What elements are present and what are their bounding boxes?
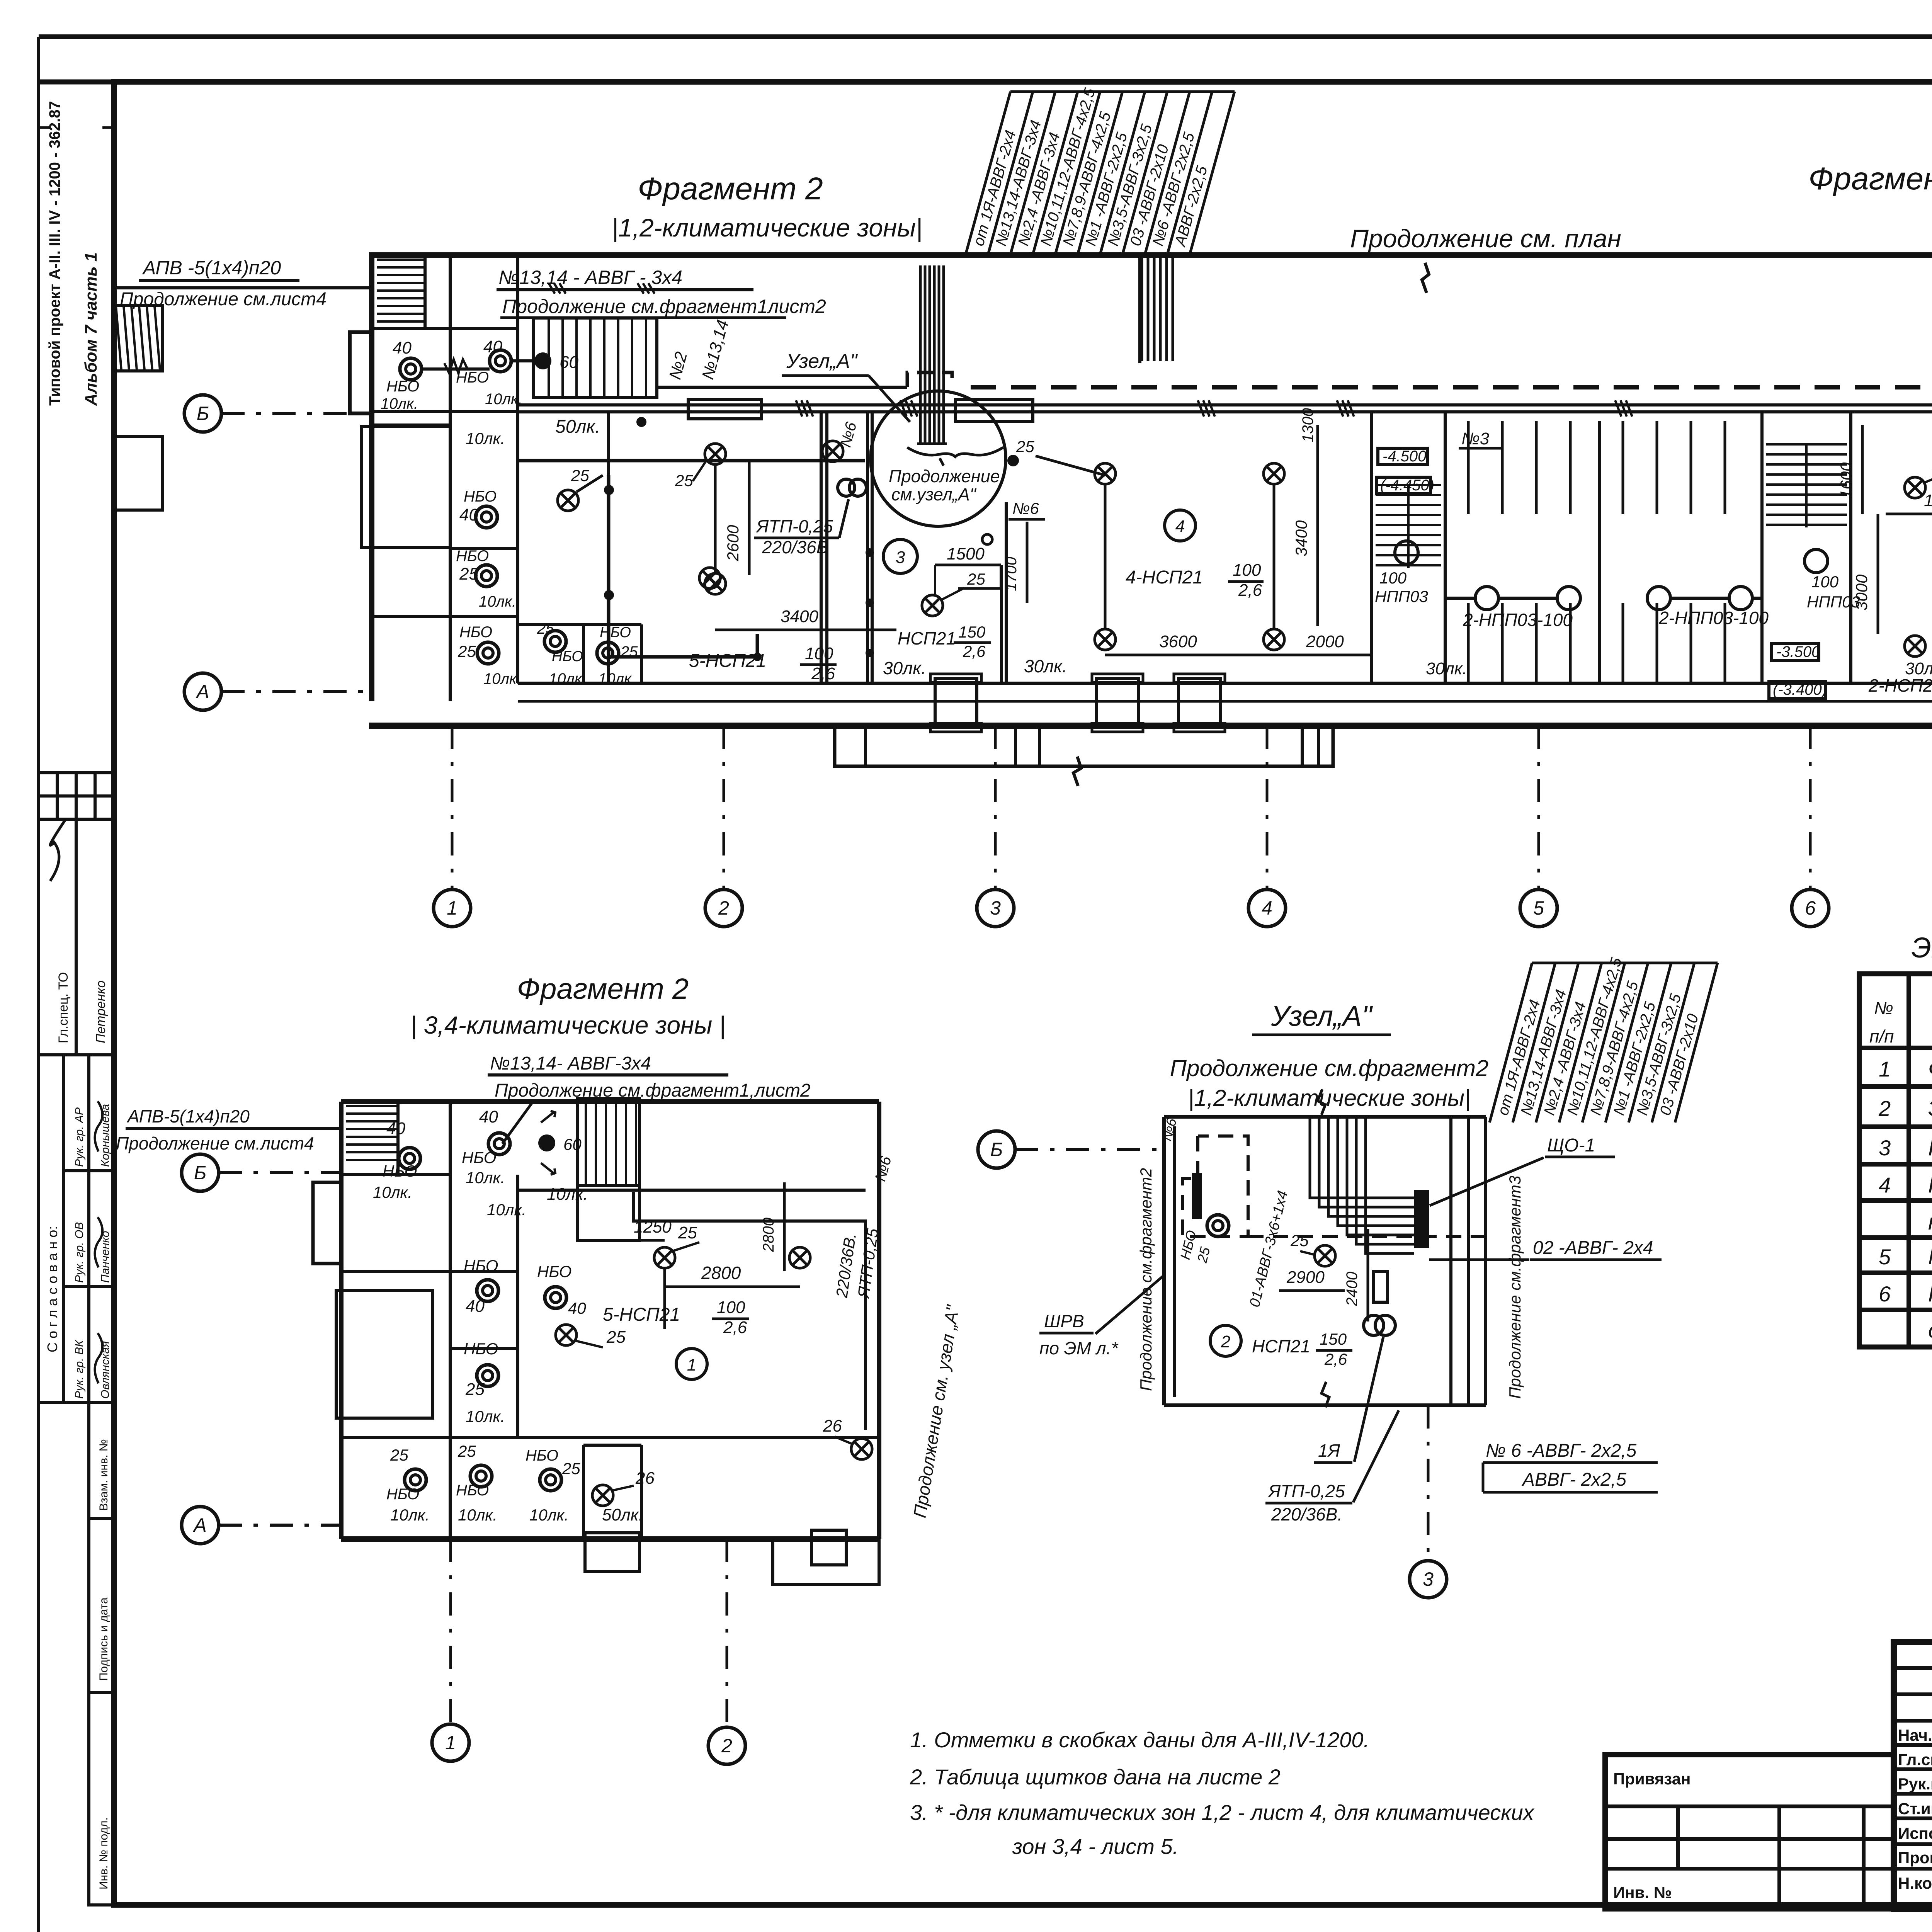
svg-text:ШРВ: ШРВ bbox=[1044, 1311, 1084, 1331]
svg-text:№: № bbox=[1874, 998, 1893, 1018]
svg-text:25: 25 bbox=[678, 1223, 697, 1242]
svg-text:10лк.: 10лк. bbox=[483, 670, 521, 687]
svg-text:Электрощитовая: Электрощитовая bbox=[1928, 1096, 1932, 1121]
svg-text:Панченко: Панченко bbox=[99, 1231, 112, 1283]
svg-text:10лк.: 10лк. bbox=[466, 429, 505, 447]
svg-text:2400: 2400 bbox=[1344, 1272, 1361, 1306]
svg-text:Инв. № подл.: Инв. № подл. bbox=[97, 1817, 110, 1889]
svg-text:Продолжение см.фрагмент2: Продолжение см.фрагмент2 bbox=[1137, 1168, 1155, 1391]
svg-text:№3: №3 bbox=[1461, 429, 1490, 448]
svg-text:40: 40 bbox=[479, 1107, 498, 1126]
svg-text:2. Таблица щитков дана на: 2. Таблица щитков дана на листе 2 bbox=[910, 1765, 1281, 1789]
svg-text:(-4.450): (-4.450) bbox=[1380, 477, 1434, 494]
svg-text:Провер.: Провер. bbox=[1898, 1849, 1932, 1867]
svg-text:2800: 2800 bbox=[760, 1218, 777, 1252]
svg-text:| 3,4-климатические зоны |: | 3,4-климатические зоны | bbox=[410, 1011, 726, 1039]
svg-text:|1,2-климатические зоны|: |1,2-климатические зоны| bbox=[1188, 1085, 1470, 1111]
svg-text:60: 60 bbox=[563, 1135, 582, 1153]
svg-text:1: 1 bbox=[1879, 1057, 1891, 1081]
svg-text:10лк.: 10лк. bbox=[549, 670, 586, 687]
svg-text:10лк.: 10лк. bbox=[547, 1185, 588, 1204]
svg-text:Помещение фильтров: Помещение фильтров bbox=[1928, 1135, 1932, 1160]
svg-text:(-3.400): (-3.400) bbox=[1773, 681, 1827, 698]
svg-text:НБО: НБО bbox=[456, 548, 489, 565]
svg-text:зон 3,4 - лист 5.: зон 3,4 - лист 5. bbox=[1012, 1834, 1179, 1859]
svg-text:25: 25 bbox=[571, 466, 589, 485]
svg-text:№6: №6 bbox=[837, 420, 860, 449]
svg-text:Типовой проект А-II. III. IV: Типовой проект А-II. III. IV - 1200 - 36… bbox=[46, 101, 63, 406]
svg-text:НСП21: НСП21 bbox=[898, 628, 956, 648]
svg-text:АВВГ- 2х2,5: АВВГ- 2х2,5 bbox=[1521, 1469, 1626, 1490]
svg-text:100: 100 bbox=[1379, 569, 1407, 587]
svg-text:100: 100 bbox=[805, 644, 833, 663]
svg-text:5: 5 bbox=[1879, 1245, 1891, 1269]
svg-text:26: 26 bbox=[635, 1469, 655, 1488]
svg-text:25: 25 bbox=[465, 1380, 485, 1399]
svg-text:Гл.спец. ТО: Гл.спец. ТО bbox=[56, 972, 71, 1043]
svg-text:100: 100 bbox=[1811, 573, 1839, 591]
svg-text:Продолжение см.фрагмент2: Продолжение см.фрагмент2 bbox=[1170, 1055, 1489, 1081]
svg-text:Альбом 7 часть 1: Альбом 7 часть 1 bbox=[82, 252, 100, 406]
svg-text:Б: Б bbox=[990, 1139, 1003, 1160]
svg-text:Взам. инв. №: Взам. инв. № bbox=[97, 1439, 110, 1511]
svg-text:дения: дения bbox=[1928, 1318, 1932, 1343]
svg-text:А: А bbox=[192, 1514, 206, 1536]
svg-text:ЩО-1: ЩО-1 bbox=[1547, 1135, 1595, 1156]
svg-text:50лк.: 50лк. bbox=[555, 417, 600, 437]
svg-text:1. Отметки в скобках даны: 1. Отметки в скобках даны для А-III,IV-1… bbox=[910, 1728, 1369, 1752]
svg-text:НБО: НБО bbox=[526, 1447, 558, 1464]
svg-text:ЯТП-0,25: ЯТП-0,25 bbox=[1267, 1481, 1345, 1501]
svg-text:3400: 3400 bbox=[1292, 520, 1310, 556]
svg-text:10лк.: 10лк. bbox=[381, 395, 418, 412]
svg-text:2,6: 2,6 bbox=[1324, 1350, 1347, 1368]
svg-text:ФВК: ФВК bbox=[1928, 1056, 1932, 1082]
svg-text:25: 25 bbox=[390, 1446, 408, 1464]
svg-text:Корнышева: Корнышева bbox=[99, 1104, 112, 1167]
svg-text:Продолжение см.фрагмент1лист2: Продолжение см.фрагмент1лист2 bbox=[502, 296, 826, 317]
svg-text:Рук.гр: Рук.гр bbox=[1898, 1775, 1932, 1793]
svg-text:2-НСП21: 2-НСП21 bbox=[1868, 675, 1932, 696]
svg-text:Машинный зал ДЭС: Машинный зал ДЭС bbox=[1928, 1244, 1932, 1269]
svg-text:25: 25 bbox=[1016, 437, 1034, 456]
svg-text:30лк.: 30лк. bbox=[883, 658, 926, 678]
svg-text:100: 100 bbox=[1233, 561, 1261, 580]
svg-text:10лк.: 10лк. bbox=[529, 1506, 569, 1524]
svg-text:Продолжение: Продолжение bbox=[889, 466, 1000, 486]
svg-text:25: 25 bbox=[537, 620, 554, 637]
svg-text:С о г л а с о в а н о:: С о г л а с о в а н о: bbox=[44, 1226, 60, 1352]
svg-text:2,6: 2,6 bbox=[811, 664, 835, 683]
svg-text:Продолжение см. план: Продолжение см. план bbox=[1350, 224, 1621, 253]
svg-text:4: 4 bbox=[1262, 897, 1272, 919]
svg-text:№2: №2 bbox=[665, 350, 691, 381]
svg-text:НБО: НБО bbox=[386, 1486, 419, 1503]
svg-text:3: 3 bbox=[1879, 1136, 1891, 1160]
svg-text:Б: Б bbox=[197, 403, 209, 424]
svg-text:Петренко: Петренко bbox=[94, 980, 108, 1043]
svg-text:2: 2 bbox=[1221, 1332, 1230, 1351]
svg-text:Помещение узла охлаж-: Помещение узла охлаж- bbox=[1928, 1281, 1932, 1306]
svg-text:3400: 3400 bbox=[781, 607, 818, 626]
svg-text:-4.500: -4.500 bbox=[1383, 448, 1426, 465]
svg-text:10лк.: 10лк. bbox=[458, 1506, 497, 1524]
svg-text:Продолжение см.фрагмент1,лист2: Продолжение см.фрагмент1,лист2 bbox=[495, 1080, 811, 1101]
svg-text:2-НПП03-100: 2-НПП03-100 bbox=[1658, 608, 1769, 628]
svg-text:40: 40 bbox=[568, 1299, 586, 1317]
svg-text:1: 1 bbox=[445, 1732, 456, 1753]
svg-text:26: 26 bbox=[823, 1417, 842, 1435]
svg-text:№6: №6 bbox=[1158, 1116, 1180, 1143]
svg-text:3: 3 bbox=[990, 897, 1001, 919]
svg-text:см.узел„А": см.узел„А" bbox=[891, 485, 977, 504]
svg-text:40: 40 bbox=[386, 1119, 405, 1138]
svg-text:150: 150 bbox=[1320, 1330, 1347, 1348]
svg-text:Исполн.: Исполн. bbox=[1898, 1824, 1932, 1842]
svg-text:|1,2-климатические зоны|: |1,2-климатические зоны| bbox=[612, 213, 922, 243]
svg-text:2: 2 bbox=[718, 897, 729, 919]
svg-text:ЯТП-0,25: ЯТП-0,25 bbox=[755, 516, 833, 536]
svg-text:№13,14: №13,14 bbox=[698, 318, 732, 382]
svg-text:150: 150 bbox=[958, 623, 986, 641]
svg-text:5-НСП21: 5-НСП21 bbox=[603, 1304, 680, 1325]
svg-text:НБО: НБО bbox=[537, 1262, 571, 1281]
svg-text:1600: 1600 bbox=[1837, 462, 1855, 498]
svg-text:НБО: НБО bbox=[383, 1162, 417, 1180]
svg-text:3: 3 bbox=[896, 548, 905, 567]
svg-text:НПП03: НПП03 bbox=[1375, 587, 1428, 605]
svg-text:НБО: НБО bbox=[464, 488, 497, 505]
svg-text:Рук. гр. ОВ: Рук. гр. ОВ bbox=[73, 1222, 86, 1283]
svg-text:№6: №6 bbox=[1012, 499, 1039, 517]
svg-text:Фрагмент 3: Фрагмент 3 bbox=[1808, 161, 1932, 196]
svg-text:10лк.: 10лк. bbox=[466, 1168, 505, 1187]
svg-text:Н.контр.: Н.контр. bbox=[1898, 1874, 1932, 1892]
svg-text:НБО: НБО bbox=[464, 1257, 498, 1275]
svg-text:25: 25 bbox=[457, 642, 476, 660]
svg-text:НБО: НБО bbox=[456, 369, 489, 386]
svg-text:НБО: НБО bbox=[552, 648, 583, 665]
svg-text:2: 2 bbox=[721, 1735, 732, 1757]
svg-text:ных установок: ных установок bbox=[1928, 1209, 1932, 1235]
svg-text:Фрагмент 2: Фрагмент 2 bbox=[638, 171, 823, 206]
svg-text:НБО: НБО bbox=[462, 1148, 496, 1167]
svg-text:3600: 3600 bbox=[1159, 632, 1197, 651]
svg-text:3: 3 bbox=[1423, 1568, 1434, 1590]
svg-text:25: 25 bbox=[1290, 1231, 1309, 1250]
svg-text:40: 40 bbox=[466, 1297, 485, 1316]
svg-text:3000: 3000 bbox=[1852, 574, 1871, 611]
svg-text:25: 25 bbox=[562, 1459, 580, 1478]
svg-text:3. * -для климатических зон: 3. * -для климатических зон 1,2 - лист 4… bbox=[910, 1800, 1535, 1825]
svg-text:НБО: НБО bbox=[464, 1340, 498, 1358]
svg-text:Фрагмент 2: Фрагмент 2 bbox=[517, 973, 689, 1005]
svg-text:Нач.отд.: Нач.отд. bbox=[1898, 1726, 1932, 1744]
svg-text:220/36В.: 220/36В. bbox=[1271, 1504, 1342, 1524]
svg-text:НБО: НБО bbox=[459, 624, 492, 641]
svg-text:2,6: 2,6 bbox=[723, 1318, 747, 1337]
svg-text:4: 4 bbox=[1175, 517, 1185, 536]
svg-text:2000: 2000 bbox=[1306, 632, 1344, 651]
svg-text:НБО: НБО bbox=[456, 1482, 489, 1499]
svg-text:25: 25 bbox=[606, 1328, 626, 1347]
svg-text:№13,14- АВВГ-3х4: №13,14- АВВГ-3х4 bbox=[490, 1053, 651, 1074]
svg-text:220/36В: 220/36В bbox=[762, 537, 828, 557]
svg-text:№ 6 -АВВГ- 2х2,5: № 6 -АВВГ- 2х2,5 bbox=[1486, 1440, 1637, 1461]
svg-text:Гл.спец.: Гл.спец. bbox=[1898, 1750, 1932, 1769]
svg-text:Узел„А": Узел„А" bbox=[1271, 1000, 1373, 1032]
svg-text:Помещение регенератив-: Помещение регенератив- bbox=[1928, 1172, 1932, 1197]
svg-text:10лк.: 10лк. bbox=[466, 1407, 505, 1425]
svg-text:АПВ -5(1х4)п20: АПВ -5(1х4)п20 bbox=[142, 257, 281, 279]
svg-text:60: 60 bbox=[560, 353, 578, 372]
svg-text:Привязан: Привязан bbox=[1613, 1770, 1690, 1788]
svg-text:30лк.: 30лк. bbox=[1905, 659, 1932, 678]
svg-text:НСП21: НСП21 bbox=[1252, 1336, 1310, 1356]
svg-text:АПВ-5(1х4)п20: АПВ-5(1х4)п20 bbox=[126, 1106, 250, 1126]
svg-text:10лк.: 10лк. bbox=[373, 1183, 412, 1201]
svg-text:-3.500: -3.500 bbox=[1776, 643, 1820, 660]
svg-text:10лк.: 10лк. bbox=[479, 593, 516, 610]
svg-text:№6: №6 bbox=[872, 1154, 895, 1183]
svg-text:4: 4 bbox=[1879, 1173, 1891, 1197]
svg-text:Овлянская: Овлянская bbox=[99, 1341, 112, 1399]
svg-text:НБО: НБО bbox=[386, 378, 419, 395]
svg-text:2,6: 2,6 bbox=[1238, 581, 1262, 600]
svg-text:2: 2 bbox=[1878, 1096, 1891, 1121]
svg-text:Ст.инж.: Ст.инж. bbox=[1898, 1799, 1932, 1818]
svg-text:1500: 1500 bbox=[1924, 491, 1932, 510]
svg-text:Узел„А": Узел„А" bbox=[786, 350, 858, 372]
svg-text:НБО: НБО bbox=[600, 624, 631, 641]
svg-text:40: 40 bbox=[459, 505, 478, 524]
svg-text:25: 25 bbox=[459, 565, 478, 583]
svg-text:10лк.: 10лк. bbox=[598, 670, 636, 687]
svg-text:2800: 2800 bbox=[701, 1263, 741, 1283]
svg-text:Б: Б bbox=[194, 1162, 207, 1184]
svg-text:1700: 1700 bbox=[1003, 557, 1020, 591]
svg-text:25: 25 bbox=[675, 471, 693, 490]
svg-text:40: 40 bbox=[393, 338, 412, 357]
svg-text:1300: 1300 bbox=[1299, 408, 1316, 442]
svg-text:25: 25 bbox=[457, 1442, 476, 1460]
svg-text:1Я: 1Я bbox=[1318, 1440, 1340, 1461]
svg-text:25: 25 bbox=[967, 570, 985, 588]
svg-text:1: 1 bbox=[687, 1355, 696, 1374]
svg-text:50лк.: 50лк. bbox=[602, 1505, 643, 1524]
svg-text:№13,14 - АВВГ - 3х4: №13,14 - АВВГ - 3х4 bbox=[498, 267, 682, 288]
svg-text:25: 25 bbox=[1194, 1245, 1213, 1265]
svg-text:02 -АВВГ- 2х4: 02 -АВВГ- 2х4 bbox=[1533, 1238, 1653, 1258]
svg-text:4-НСП21: 4-НСП21 bbox=[1126, 567, 1203, 588]
svg-text:Экспликация помещений: Экспликация помещений bbox=[1912, 932, 1932, 964]
svg-text:1500: 1500 bbox=[947, 544, 985, 563]
svg-text:Продолжение см.фрагмент3: Продолжение см.фрагмент3 bbox=[1506, 1176, 1524, 1399]
svg-text:Рук. гр. АР: Рук. гр. АР bbox=[73, 1107, 86, 1167]
svg-text:Рук. гр. ВК: Рук. гр. ВК bbox=[73, 1339, 86, 1399]
svg-text:30лк.: 30лк. bbox=[1024, 656, 1067, 676]
svg-text:2900: 2900 bbox=[1286, 1268, 1325, 1287]
svg-text:100: 100 bbox=[717, 1298, 745, 1317]
svg-text:2600: 2600 bbox=[724, 525, 742, 561]
svg-text:А: А bbox=[195, 681, 209, 702]
svg-text:10лк.: 10лк. bbox=[485, 391, 522, 408]
svg-text:30лк.: 30лк. bbox=[1426, 659, 1467, 678]
svg-text:Продолжение см.лист4: Продолжение см.лист4 bbox=[116, 1133, 314, 1153]
svg-text:5-НСП21: 5-НСП21 bbox=[689, 651, 766, 671]
svg-text:Подпись и дата: Подпись и дата bbox=[97, 1597, 110, 1681]
svg-text:10лк.: 10лк. bbox=[487, 1201, 526, 1219]
svg-text:1: 1 bbox=[447, 897, 457, 919]
svg-text:2-НПП03-100: 2-НПП03-100 bbox=[1463, 610, 1573, 630]
svg-text:6: 6 bbox=[1805, 897, 1816, 919]
svg-text:10лк.: 10лк. bbox=[390, 1506, 430, 1524]
svg-text:п/п: п/п bbox=[1869, 1026, 1894, 1046]
svg-text:6: 6 bbox=[1879, 1282, 1891, 1306]
svg-text:2,6: 2,6 bbox=[963, 642, 986, 660]
svg-text:5: 5 bbox=[1533, 897, 1544, 919]
svg-text:Инв. №: Инв. № bbox=[1613, 1883, 1672, 1901]
svg-text:Продолжение см. узел „А": Продолжение см. узел „А" bbox=[910, 1303, 963, 1519]
svg-text:по ЭМ л.*: по ЭМ л.* bbox=[1039, 1338, 1119, 1358]
